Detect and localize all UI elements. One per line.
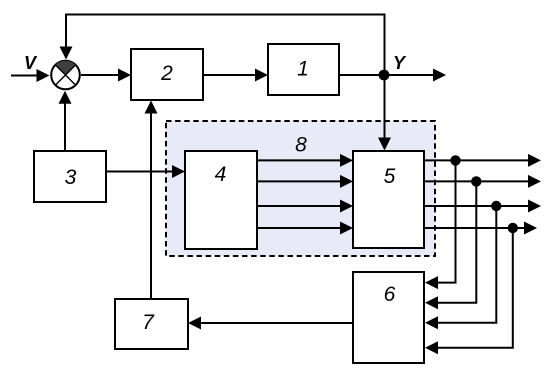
node Y junction dot (379, 70, 390, 81)
wire: summer to block 2 (81, 69, 131, 82)
block 4 (185, 151, 257, 249)
wire: block 5 output row 1 (424, 154, 541, 167)
summing junction (51, 61, 80, 90)
wire: 4 to 5 row 1 (257, 154, 353, 167)
svg-text:2: 2 (160, 62, 173, 85)
svg-text:6: 6 (384, 283, 396, 306)
node on row 1 (450, 155, 460, 165)
wire: drop 4 from row 4 node into block 6 input 4 (425, 228, 513, 354)
wire: block 2 to block 1 (203, 69, 268, 82)
wire: drop 3 from row 3 node into block 6 input 3 (425, 206, 496, 329)
wire: drop 2 from row 2 node into block 6 input 2 (425, 181, 476, 309)
wire: V input (11, 69, 50, 82)
wire: top feedback horizontal (65, 14, 386, 16)
svg-text:3: 3 (65, 166, 77, 189)
dashed subsystem box 8 (166, 121, 435, 256)
block 5 (353, 151, 424, 248)
svg-text:1: 1 (297, 58, 309, 81)
node on row 2 (471, 176, 481, 186)
node on row 3 (491, 201, 501, 211)
wire: 4 to 5 row 2 (257, 175, 353, 188)
svg-text:7: 7 (142, 311, 155, 334)
svg-text:V: V (24, 53, 38, 73)
block 1 (268, 44, 339, 95)
wire: feedback left drop into summer (60, 14, 73, 60)
block 3 (34, 151, 106, 202)
wire: block 1 output to Y arrow (339, 69, 446, 82)
wire: block 5 output row 3 (424, 200, 541, 213)
svg-text:5: 5 (384, 165, 396, 188)
wire: block 5 output row 2 (424, 175, 541, 188)
svg-text:Y: Y (393, 53, 407, 73)
wire: block 5 output row 4 (424, 222, 537, 235)
svg-text:8: 8 (295, 134, 307, 157)
svg-text:4: 4 (215, 163, 227, 186)
wire: block 3 to block 4 (106, 165, 185, 178)
wire: right drop from top line through node Y down to block 5 (378, 14, 391, 151)
block 6 (353, 272, 424, 363)
wire: block 6 to block 7 (188, 317, 353, 330)
wire: 4 to 5 row 3 (257, 200, 353, 213)
wire: drop 1 from row 1 node into block 6 input 1 (425, 160, 456, 289)
node on row 4 (508, 223, 518, 233)
wire: block 7 up into block 2 (145, 101, 158, 300)
block 2 (131, 49, 203, 100)
wire: 4 to 5 row 4 (257, 222, 353, 235)
wire: block 3 up into summer (59, 91, 72, 151)
block 7 (115, 299, 188, 349)
